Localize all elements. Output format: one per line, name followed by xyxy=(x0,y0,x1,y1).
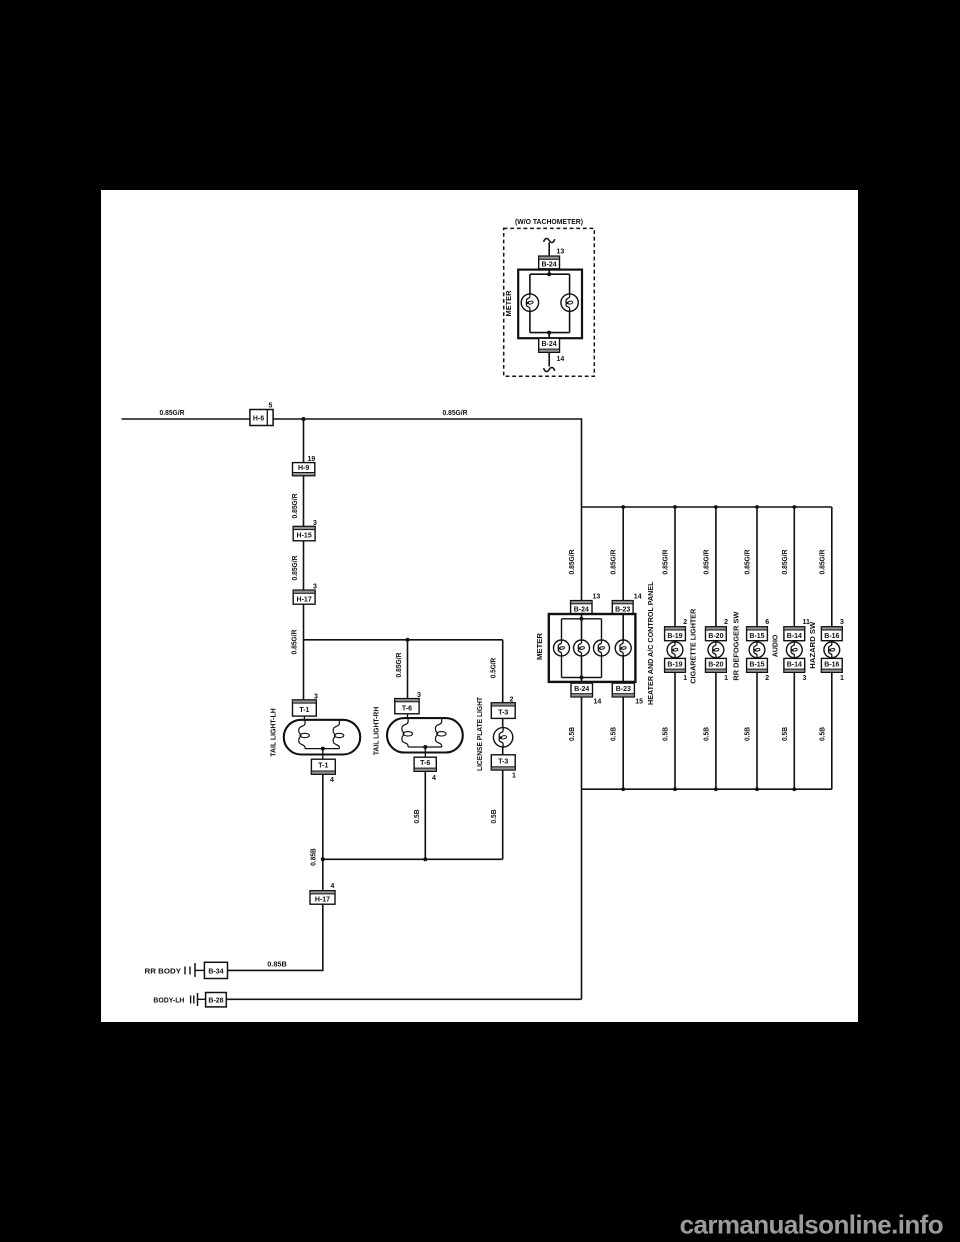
svg-text:0.5B: 0.5B xyxy=(704,727,711,741)
pin 3 (H-15) xyxy=(313,520,317,527)
label 0.5B (vertical, B-23 col) xyxy=(611,727,618,741)
pin 14 (B-24 bottom) xyxy=(594,699,602,706)
wire branch below H-17 xyxy=(304,604,503,700)
label 0.85B (horizontal) xyxy=(267,962,287,969)
svg-text:B-24: B-24 xyxy=(574,606,589,613)
lamp meter illumination 1 xyxy=(554,640,570,656)
label 0.5B (vertical, B-16 col) xyxy=(820,727,827,741)
wire bottom junction to B-24 xyxy=(547,331,551,339)
wire 0.85B collector xyxy=(321,770,503,861)
label 0.85G/R (vertical, above H-15) xyxy=(292,556,299,581)
wire from B-24 pin 14 xyxy=(548,352,550,366)
connector B-24 (top, W/O tach meter) xyxy=(539,256,560,269)
svg-text:B-14: B-14 xyxy=(787,661,802,668)
svg-text:0.85G/R: 0.85G/R xyxy=(782,550,789,575)
label 0.85G/R (vertical, B-16 col) xyxy=(820,550,827,575)
connector B-15 (top) xyxy=(747,627,768,641)
connector H-15 xyxy=(293,526,315,540)
svg-text:HAZARD SW: HAZARD SW xyxy=(810,621,817,668)
wire 0.5G/R branch to T-3 xyxy=(502,640,504,703)
svg-text:B-15: B-15 xyxy=(749,661,764,668)
junction node on main feed xyxy=(302,417,306,421)
pin 3 (B-16 top) xyxy=(840,619,844,626)
label METER (W/O tach) xyxy=(506,291,513,317)
svg-text:0.85G/R: 0.85G/R xyxy=(292,630,299,655)
bulb filament LH-b xyxy=(333,720,344,749)
pin 5 xyxy=(269,403,273,410)
meter unit box xyxy=(549,614,636,682)
svg-text:T-3: T-3 xyxy=(498,710,508,717)
wire inside RH housing to T-6 bottom xyxy=(408,745,442,757)
svg-text:14: 14 xyxy=(557,356,565,363)
wire column B-20 xyxy=(715,507,717,789)
label AUDIO xyxy=(773,634,780,657)
lamp meter illumination 4 xyxy=(615,640,631,656)
pin 14 (B-23 top) xyxy=(634,594,642,601)
lamp B-16 illumination xyxy=(824,642,840,658)
svg-text:CIGARETTE LIGHTER: CIGARETTE LIGHTER xyxy=(691,609,698,684)
pin 15 (B-23 bottom) xyxy=(635,699,643,706)
tail light RH housing xyxy=(387,718,463,752)
connector T-6 (bottom) xyxy=(414,757,436,771)
connector B-23 (meter bottom) xyxy=(612,683,634,697)
wire B-28 to right bus xyxy=(226,998,581,1000)
svg-text:T-1: T-1 xyxy=(299,707,309,714)
label 0.85G/R (vertical, B-15 col) xyxy=(745,550,752,575)
pin 2 (B-19 top) xyxy=(683,619,687,626)
label (W/O TACHOMETER) xyxy=(515,219,583,226)
pin 2 (B-20 top) xyxy=(724,619,728,626)
svg-text:2: 2 xyxy=(765,675,769,682)
wire 0.85G/R main feed xyxy=(122,419,582,507)
svg-text:B-24: B-24 xyxy=(542,262,557,269)
connector B-24 (meter bottom) xyxy=(571,683,593,697)
pin 4 (H-17 lower) xyxy=(331,883,335,890)
bulb filament LH-a xyxy=(299,720,310,749)
label TAIL LIGHT-LH xyxy=(271,708,278,757)
pin 13 (B-24 top) xyxy=(593,594,601,601)
label HEATER AND A/C CONTROL PANEL xyxy=(648,581,655,705)
connector H-17 (lower) xyxy=(310,891,335,905)
svg-text:13: 13 xyxy=(557,249,565,256)
lamp L1 (W/O tach meter illumination) xyxy=(521,294,538,311)
wire T-3 to lamp xyxy=(502,718,504,770)
svg-text:0.5B: 0.5B xyxy=(491,810,498,824)
svg-text:0.85G/R: 0.85G/R xyxy=(663,550,670,575)
wire bottom bus 0.5B xyxy=(582,787,832,791)
lamp L2 (W/O tach meter illumination) xyxy=(561,294,578,311)
wire meter column B-23 xyxy=(622,507,624,789)
wire 0.85G/R branch to T-6 xyxy=(407,640,409,699)
svg-text:H-17: H-17 xyxy=(297,596,312,603)
svg-text:14: 14 xyxy=(634,594,642,601)
pin 14 xyxy=(557,356,565,363)
junction node on branch (T-6 drop) xyxy=(406,638,410,642)
connector B-23 (meter top) xyxy=(612,601,633,614)
svg-text:14: 14 xyxy=(594,699,602,706)
label 0.5B (vertical, B-20 col) xyxy=(704,727,711,741)
wire to H-17 lower xyxy=(322,859,324,890)
wire top bus 0.85G/R xyxy=(582,505,832,509)
svg-text:0.5B: 0.5B xyxy=(414,810,421,824)
svg-text:T-3: T-3 xyxy=(498,758,508,765)
dashed enclosure (W/O TACHOMETER variant) xyxy=(504,228,595,376)
svg-text:B-28: B-28 xyxy=(208,998,223,1005)
svg-text:B-24: B-24 xyxy=(542,341,557,348)
svg-text:B-14: B-14 xyxy=(787,633,802,640)
svg-text:3: 3 xyxy=(840,619,844,626)
connector B-34 xyxy=(185,962,228,978)
wire 0.85G/R to H-9 xyxy=(303,419,305,463)
label 0.85G/R (vertical, B-14 col) xyxy=(782,550,789,575)
wire inner lamp loop (W/O tach) xyxy=(530,274,570,332)
label LICENSE PLATE LIGHT xyxy=(477,696,484,771)
svg-text:2: 2 xyxy=(683,619,687,626)
svg-text:B-34: B-34 xyxy=(208,968,223,975)
label RR BODY xyxy=(145,968,182,975)
pin 4 (T-1) xyxy=(330,777,334,784)
svg-text:HEATER AND A/C CONTROL PANEL: HEATER AND A/C CONTROL PANEL xyxy=(648,581,655,705)
label 0.5B (vertical, B-15 col) xyxy=(745,727,752,741)
svg-text:15: 15 xyxy=(635,699,643,706)
label 0.85G/R (vertical, B-23 col) xyxy=(611,550,618,575)
lamp B-20 illumination xyxy=(708,642,724,658)
connector B-24 (bottom, W/O tach meter) xyxy=(539,338,560,352)
svg-text:13: 13 xyxy=(593,594,601,601)
svg-text:AUDIO: AUDIO xyxy=(773,634,780,657)
wire column B-19 xyxy=(674,507,676,789)
connector B-28 xyxy=(191,993,227,1007)
pin 3 (T-6) xyxy=(417,692,421,699)
pin 19 xyxy=(308,456,316,463)
wire inner lamp loop (meter) xyxy=(562,617,602,680)
svg-text:METER: METER xyxy=(506,291,513,317)
connector B-16 (top) xyxy=(821,627,842,641)
svg-text:0.85G/R: 0.85G/R xyxy=(396,653,403,678)
svg-text:T-6: T-6 xyxy=(420,760,430,767)
wire 0.85G/R H-15 to H-17 xyxy=(303,541,305,590)
svg-text:B-19: B-19 xyxy=(667,661,682,668)
svg-text:carmanualsonline.info: carmanualsonline.info xyxy=(680,1210,943,1240)
svg-text:0.5G/R: 0.5G/R xyxy=(490,658,497,679)
wire column B-14 xyxy=(793,507,795,789)
pin 1 (B-16 bottom) xyxy=(840,675,844,682)
svg-text:1: 1 xyxy=(512,773,516,780)
svg-text:0.5B: 0.5B xyxy=(782,727,789,741)
svg-text:1: 1 xyxy=(683,675,687,682)
label 0.5B (vertical, T-3 drop) xyxy=(491,810,498,824)
connector T-1 (top) xyxy=(293,700,317,716)
svg-text:B-15: B-15 xyxy=(749,633,764,640)
connector T-3 (top) xyxy=(491,703,515,719)
label 0.85G/R (left) xyxy=(160,410,185,417)
connector B-24 (meter top) xyxy=(571,601,592,614)
svg-text:BODY-LH: BODY-LH xyxy=(153,998,184,1005)
svg-text:0.85B: 0.85B xyxy=(311,848,318,866)
connector T-6 (top) xyxy=(395,699,419,714)
label 0.85G/R (vertical, B-19 col) xyxy=(663,550,670,575)
wire inside LH housing to T-1 bottom xyxy=(305,747,339,760)
bulb filament RH-a xyxy=(402,718,413,747)
svg-text:0.85B: 0.85B xyxy=(267,962,287,969)
svg-text:B-16: B-16 xyxy=(824,633,839,640)
svg-text:0.85G/R: 0.85G/R xyxy=(569,550,576,575)
svg-text:T-6: T-6 xyxy=(402,705,412,712)
connector H-9 xyxy=(293,463,315,476)
label TAIL LIGHT-RH xyxy=(374,707,381,756)
connector B-20 (top) xyxy=(706,627,727,641)
svg-text:0.85G/R: 0.85G/R xyxy=(704,550,711,575)
wire into meter with junction xyxy=(547,269,551,276)
connector B-14 (bottom) xyxy=(784,658,805,672)
pin 1 (B-19 bottom) xyxy=(683,675,687,682)
label 0.5G/R (vertical, above T-3) xyxy=(490,658,497,679)
lamp B-14 illumination xyxy=(786,642,802,658)
connector B-14 (top) xyxy=(784,627,805,641)
pin 13 xyxy=(557,249,565,256)
svg-text:(W/O TACHOMETER): (W/O TACHOMETER) xyxy=(515,219,583,226)
label 0.85G/R (right) xyxy=(443,410,468,417)
label 0.85G/R (vertical, B-20 col) xyxy=(704,550,711,575)
svg-text:0.85G/R: 0.85G/R xyxy=(292,556,299,581)
label 0.5B (vertical, B-14 col) xyxy=(782,727,789,741)
pin 3 (T-1) xyxy=(314,693,318,700)
svg-text:5: 5 xyxy=(269,403,273,410)
svg-text:0.85G/R: 0.85G/R xyxy=(443,410,468,417)
svg-text:6: 6 xyxy=(765,619,769,626)
svg-text:0.5B: 0.5B xyxy=(820,727,827,741)
svg-text:H-17: H-17 xyxy=(315,897,330,904)
connector T-3 (bottom) xyxy=(491,755,515,770)
svg-text:B-20: B-20 xyxy=(708,661,723,668)
svg-text:B-23: B-23 xyxy=(615,606,630,613)
pin 2 (T-3) xyxy=(510,696,514,703)
lamp license plate light xyxy=(493,728,512,747)
pin 1 (B-20 bottom) xyxy=(724,675,728,682)
svg-text:T-1: T-1 xyxy=(318,763,328,770)
svg-text:0.85G/R: 0.85G/R xyxy=(820,550,827,575)
svg-text:TAIL LIGHT-RH: TAIL LIGHT-RH xyxy=(374,707,381,756)
label 0.5B (vertical, T-6 drop) xyxy=(414,810,421,824)
svg-text:B-20: B-20 xyxy=(708,633,723,640)
label 0.85G/R (vertical, B-24 col) xyxy=(569,550,576,575)
svg-text:1: 1 xyxy=(724,675,728,682)
label CIGARETTE LIGHTER xyxy=(691,609,698,684)
pin 4 (T-6) xyxy=(432,775,436,782)
svg-text:RR BODY: RR BODY xyxy=(145,968,182,975)
connector H-6 xyxy=(250,410,273,426)
label 0.5B (vertical, B-24 col) xyxy=(569,727,576,741)
svg-text:0.5B: 0.5B xyxy=(611,727,618,741)
label BODY-LH xyxy=(153,998,184,1005)
tail light LH housing xyxy=(284,720,360,755)
svg-text:RR DEFOGGER SW: RR DEFOGGER SW xyxy=(733,611,740,680)
connector T-1 (bottom) xyxy=(311,759,335,774)
wire 0.85G/R H-9 to H-15 xyxy=(303,476,305,527)
svg-text:METER: METER xyxy=(537,633,544,660)
svg-text:B-19: B-19 xyxy=(667,633,682,640)
svg-text:11: 11 xyxy=(803,619,811,626)
pin 11 (B-14 top) xyxy=(803,619,811,626)
connector H-17 xyxy=(293,590,315,604)
pin 3 (H-17) xyxy=(313,584,317,591)
wire column B-16 xyxy=(831,507,833,789)
label METER xyxy=(537,633,544,660)
svg-text:LICENSE PLATE LIGHT: LICENSE PLATE LIGHT xyxy=(477,696,484,771)
label 0.85G/R (vertical, above H-9) xyxy=(292,494,299,519)
label 0.85G/R (vertical, below H-17) xyxy=(292,630,299,655)
label 0.85B (vertical) xyxy=(311,848,318,866)
svg-text:B-16: B-16 xyxy=(824,661,839,668)
svg-text:H-6: H-6 xyxy=(253,415,264,422)
connector B-19 (bottom) xyxy=(665,658,686,672)
bulb filament RH-b xyxy=(436,718,447,747)
connector B-16 (bottom) xyxy=(821,658,842,672)
wire T-1 into lamp housing xyxy=(303,716,305,720)
svg-text:0.85G/R: 0.85G/R xyxy=(745,550,752,575)
pin 1 (T-3) xyxy=(512,773,516,780)
pin 3 (B-14 bottom) xyxy=(803,675,807,682)
wire break symbol (top) xyxy=(544,238,555,242)
svg-text:0.5B: 0.5B xyxy=(745,727,752,741)
lamp B-19 illumination xyxy=(667,642,683,658)
svg-text:0.85G/R: 0.85G/R xyxy=(292,494,299,519)
connector B-20 (bottom) xyxy=(706,658,727,672)
svg-text:B-24: B-24 xyxy=(574,686,589,693)
wire H-17 to B-34 xyxy=(228,904,323,970)
label HAZARD SW xyxy=(810,621,817,668)
pin 6 (B-15 top) xyxy=(765,619,769,626)
wire T-6 into lamp housing xyxy=(407,714,409,718)
label RR DEFOGGER SW xyxy=(733,611,740,680)
meter unit box (W/O tach) xyxy=(518,270,582,339)
svg-text:0.5B: 0.5B xyxy=(663,727,670,741)
wire break symbol (bottom) xyxy=(544,367,555,371)
watermark carmanualsonline.info xyxy=(680,1210,943,1240)
svg-text:0.5B: 0.5B xyxy=(569,727,576,741)
svg-text:H-9: H-9 xyxy=(298,465,309,472)
label 0.85G/R (vertical, above T-6) xyxy=(396,653,403,678)
svg-text:H-15: H-15 xyxy=(297,533,312,540)
connector B-15 (bottom) xyxy=(747,658,768,672)
svg-text:0.85G/R: 0.85G/R xyxy=(160,410,185,417)
svg-text:1: 1 xyxy=(840,675,844,682)
svg-text:B-23: B-23 xyxy=(616,686,631,693)
wire to connector B-24 pin 13 xyxy=(548,243,550,257)
label 0.5B (vertical, B-19 col) xyxy=(663,727,670,741)
wire meter column B-24 xyxy=(581,507,583,999)
lamp B-15 illumination xyxy=(749,642,765,658)
svg-text:TAIL LIGHT-LH: TAIL LIGHT-LH xyxy=(271,708,278,757)
svg-text:2: 2 xyxy=(724,619,728,626)
svg-text:4: 4 xyxy=(330,777,334,784)
svg-text:0.85G/R: 0.85G/R xyxy=(611,550,618,575)
svg-text:4: 4 xyxy=(432,775,436,782)
pin 2 (B-15 bottom) xyxy=(765,675,769,682)
svg-text:4: 4 xyxy=(331,883,335,890)
svg-text:3: 3 xyxy=(803,675,807,682)
lamp meter illumination 3 xyxy=(594,640,610,656)
connector B-19 (top) xyxy=(665,627,686,641)
wire column B-15 xyxy=(756,507,758,789)
lamp meter illumination 2 xyxy=(574,640,590,656)
